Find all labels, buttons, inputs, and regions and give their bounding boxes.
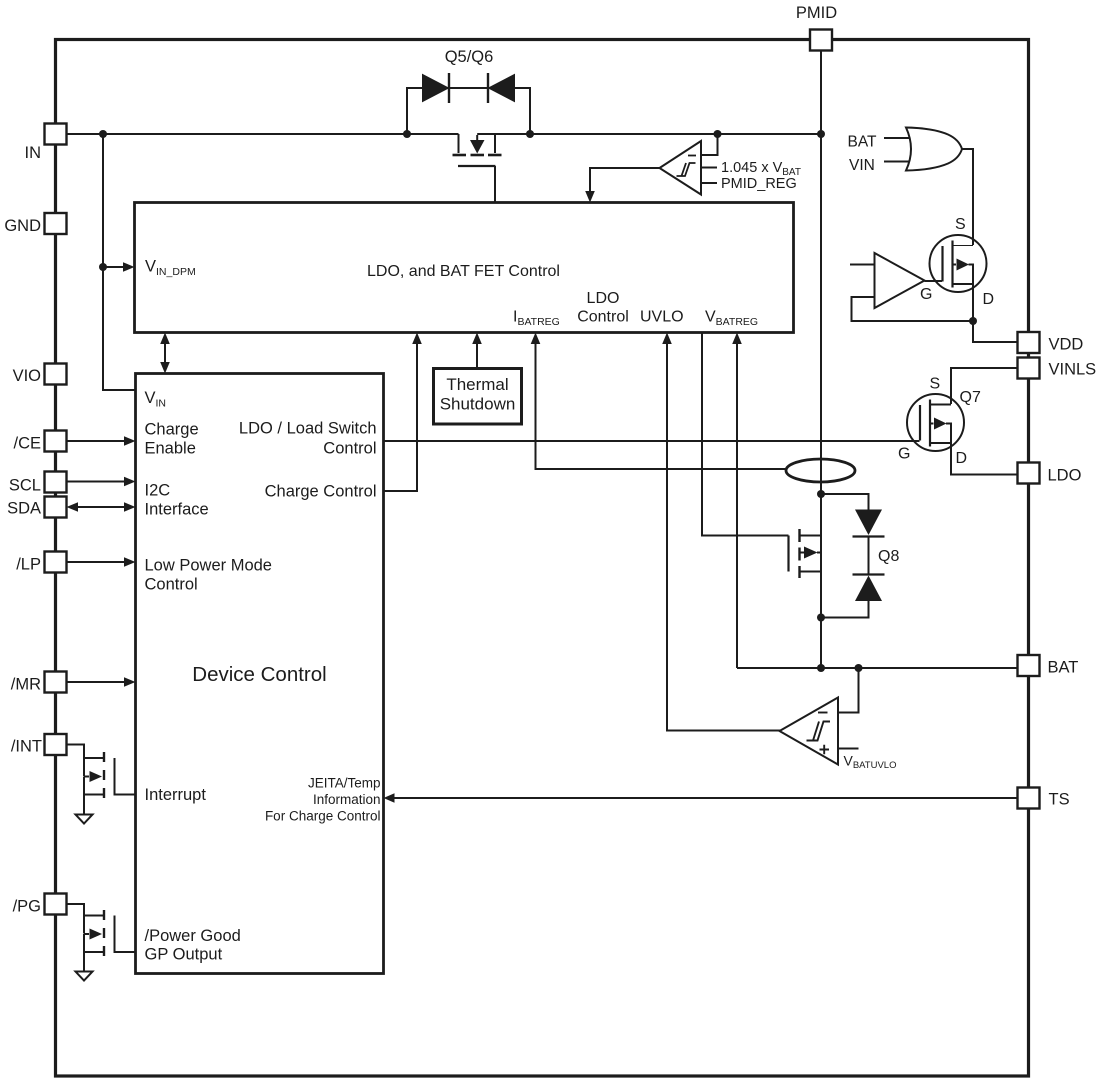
svg-text:SCL: SCL xyxy=(9,477,41,495)
svg-text:/MR: /MR xyxy=(11,676,41,694)
svg-text:Thermal: Thermal xyxy=(446,375,508,394)
svg-text:LDO: LDO xyxy=(587,290,620,307)
svg-text:UVLO: UVLO xyxy=(640,309,684,326)
svg-text:PMID_REG: PMID_REG xyxy=(721,176,797,192)
svg-text:LDO: LDO xyxy=(1048,467,1082,485)
svg-text:D: D xyxy=(983,291,995,308)
svg-text:For Charge Control: For Charge Control xyxy=(265,809,381,824)
svg-text:LDO, and BAT FET Control: LDO, and BAT FET Control xyxy=(367,263,560,280)
svg-text:TS: TS xyxy=(1049,791,1070,809)
svg-text:Interface: Interface xyxy=(145,501,209,519)
svg-text:D: D xyxy=(956,450,968,467)
svg-text:Enable: Enable xyxy=(145,440,196,458)
svg-text:SDA: SDA xyxy=(7,500,41,518)
svg-text:Information: Information xyxy=(313,792,381,807)
svg-text:Low Power Mode: Low Power Mode xyxy=(145,557,272,575)
svg-text:Q5/Q6: Q5/Q6 xyxy=(445,48,494,66)
svg-text:Q8: Q8 xyxy=(878,548,899,565)
svg-text:VIN: VIN xyxy=(849,157,875,174)
svg-text:VINLS: VINLS xyxy=(1049,361,1097,379)
svg-text:/LP: /LP xyxy=(16,556,41,574)
svg-text:Charge: Charge xyxy=(145,421,199,439)
svg-text:/INT: /INT xyxy=(11,738,42,756)
svg-text:GND: GND xyxy=(4,217,41,235)
svg-text:/Power Good: /Power Good xyxy=(145,927,241,945)
svg-text:G: G xyxy=(920,286,932,303)
svg-text:Control: Control xyxy=(323,440,376,458)
svg-text:PMID: PMID xyxy=(796,4,837,22)
svg-text:VIO: VIO xyxy=(13,367,42,385)
svg-text:Interrupt: Interrupt xyxy=(145,786,207,804)
svg-text:Shutdown: Shutdown xyxy=(440,395,516,414)
svg-text:JEITA/Temp: JEITA/Temp xyxy=(308,776,381,791)
svg-text:Control: Control xyxy=(577,309,629,326)
svg-text:LDO / Load Switch: LDO / Load Switch xyxy=(239,420,377,438)
svg-text:Device Control: Device Control xyxy=(192,663,326,686)
svg-text:/PG: /PG xyxy=(13,898,41,916)
svg-text:I2C: I2C xyxy=(145,482,171,500)
svg-text:Q7: Q7 xyxy=(960,389,981,406)
svg-text:G: G xyxy=(898,446,910,463)
svg-text:BAT: BAT xyxy=(1048,659,1079,677)
svg-text:S: S xyxy=(930,376,941,393)
svg-text:IN: IN xyxy=(25,144,42,162)
svg-text:Charge Control: Charge Control xyxy=(265,483,377,501)
svg-text:/CE: /CE xyxy=(13,435,41,453)
svg-text:GP Output: GP Output xyxy=(145,946,223,964)
svg-text:BAT: BAT xyxy=(848,134,878,151)
svg-text:S: S xyxy=(955,216,966,233)
svg-text:Control: Control xyxy=(145,576,198,594)
svg-text:VDD: VDD xyxy=(1049,336,1084,354)
